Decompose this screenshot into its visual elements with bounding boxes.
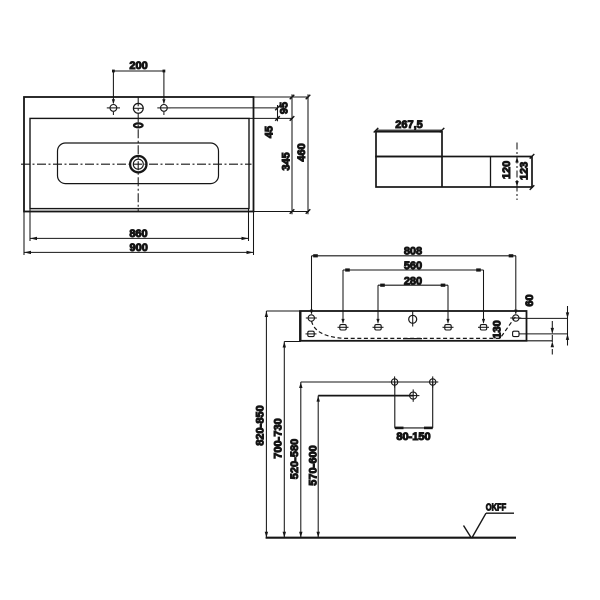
mounting box — [395, 382, 433, 428]
front left top hole — [306, 315, 317, 321]
plan horizontal centerline — [21, 163, 252, 165]
svg-text:560: 560 — [404, 260, 422, 272]
dim 460 ticks — [306, 95, 311, 214]
crosshair siphon — [407, 389, 419, 401]
dim 130 arrows — [551, 328, 554, 347]
dim 860 arrows — [30, 237, 249, 240]
dim 900 line — [24, 251, 254, 253]
dim 345 tick — [290, 209, 295, 214]
extension 560 — [343, 270, 484, 323]
drain hole inner — [133, 159, 143, 169]
dim 460 line — [307, 94, 309, 214]
dim 560 arrows — [345, 268, 481, 271]
svg-text:120: 120 — [501, 161, 513, 179]
front right top hole — [510, 315, 521, 321]
front anchor plugs — [306, 325, 520, 337]
extension 280 — [378, 285, 448, 323]
drain recess front — [403, 338, 422, 340]
dim 520-580 line — [301, 382, 433, 538]
dim 200 arrows — [112, 70, 166, 105]
svg-text:200: 200 — [129, 60, 147, 72]
dim 95 ticks — [290, 95, 295, 121]
side view backsplash — [376, 132, 442, 157]
dim 280 line — [378, 284, 448, 286]
svg-text:460: 460 — [296, 143, 308, 161]
svg-text:80-150: 80-150 — [396, 431, 430, 443]
crosshair right — [427, 376, 438, 387]
floor line — [266, 537, 516, 539]
dim 60 line — [567, 306, 569, 346]
svg-text:700-730: 700-730 — [273, 418, 285, 458]
extension 808 left — [312, 256, 516, 314]
svg-text:820-850: 820-850 — [255, 405, 267, 445]
dim 60 arrows — [566, 312, 569, 340]
extension lines 860 — [30, 209, 249, 241]
hidden bowl line front — [312, 317, 516, 339]
svg-text:130: 130 — [492, 320, 504, 338]
side view body — [376, 157, 532, 188]
extension arrows at holes — [310, 310, 518, 324]
dim 520-580 arrows — [299, 382, 302, 538]
crosshair left — [389, 376, 400, 387]
svg-text:123: 123 — [519, 162, 531, 180]
dim 95 line — [291, 94, 293, 121]
side view division line 1 — [441, 157, 443, 188]
extension bottom edge right — [527, 340, 553, 342]
svg-text:808: 808 — [404, 246, 422, 258]
dim 700-730 line — [284, 342, 301, 538]
dim 570-600 arrows — [317, 396, 320, 538]
svg-text:570-600: 570-600 — [308, 445, 320, 485]
plan vertical centerline — [137, 97, 139, 211]
svg-text:45: 45 — [264, 126, 276, 138]
extension lines 900 — [24, 212, 254, 256]
dim 120 arrows — [515, 157, 518, 188]
dim 123 ticks — [530, 154, 535, 190]
dim 820-850 line — [266, 311, 300, 538]
svg-text:520-580: 520-580 — [289, 439, 301, 479]
dim 560 line — [343, 269, 484, 271]
side view division line 2 — [490, 157, 492, 188]
dim 345 line — [291, 118, 293, 214]
extension line deck front edge right — [249, 117, 293, 119]
plan view outer rim rect — [24, 97, 254, 212]
dim 808 arrows — [313, 254, 513, 257]
svg-text:345: 345 — [281, 152, 293, 170]
extension top hole right — [519, 317, 568, 319]
drain hole outer — [130, 156, 146, 172]
extension line top edge right — [254, 96, 310, 98]
svg-text:860: 860 — [129, 228, 147, 240]
right faucet hole — [157, 105, 170, 116]
svg-text:OKFF: OKFF — [486, 501, 507, 512]
overflow slot — [134, 123, 143, 127]
dim 130 line — [551, 321, 553, 355]
dim 860 line — [30, 237, 249, 239]
center tap hole circle — [133, 103, 144, 113]
dim 45 line — [277, 105, 279, 121]
side view 120 dim centerline — [516, 143, 518, 201]
dim 900 arrows — [24, 251, 254, 254]
dim 200 line — [113, 71, 163, 103]
dim 820-850 arrows — [265, 311, 268, 538]
dim 267,5 ticks — [374, 128, 445, 133]
extension plug right — [519, 333, 568, 335]
front center drain — [409, 311, 417, 327]
svg-text:95: 95 — [279, 102, 291, 114]
front view outline — [300, 311, 527, 341]
svg-text:900: 900 — [130, 242, 148, 254]
dim 700-730 arrows — [283, 342, 286, 538]
svg-text:280: 280 — [404, 276, 422, 288]
mounting box ticks — [395, 427, 433, 430]
plan view inner deck rect — [30, 118, 249, 208]
dim 267,5 line — [376, 129, 442, 131]
dim 808 line — [312, 255, 517, 257]
dim 280 arrows — [380, 284, 445, 287]
dim 570-600 line — [318, 396, 413, 538]
dim 45 ticks — [275, 106, 280, 121]
extension line bottom edge right — [254, 211, 310, 213]
plan view bowl outline — [58, 143, 219, 184]
svg-text:60: 60 — [524, 294, 536, 306]
floor level symbol — [464, 513, 515, 538]
svg-text:267,5: 267,5 — [395, 119, 423, 131]
left faucet hole — [107, 105, 120, 116]
extension line faucet holes right — [171, 107, 278, 109]
